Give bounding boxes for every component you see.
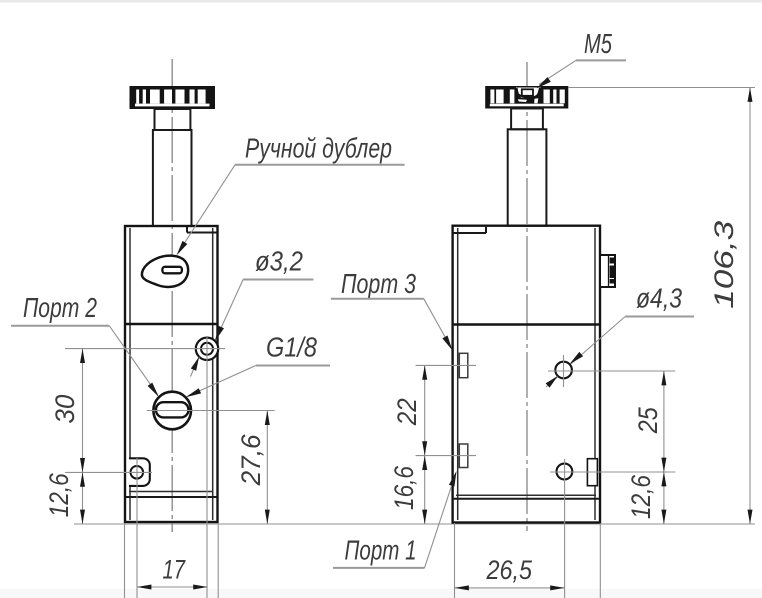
right knob neck [511,109,543,130]
svg-text:12,6: 12,6 [44,472,74,517]
left body mid divider [126,323,217,325]
dimension 26,5 [455,459,601,598]
lower hole circle [557,464,573,480]
svg-text:G1/8: G1/8 [266,332,317,363]
port 3 tab (upper left) [459,353,468,377]
label: M5 [537,28,627,89]
left knob neck [155,109,191,130]
port 2 G1/8 circle [153,392,191,430]
label: ø3,2 with diameter arrows [191,245,314,376]
svg-text:ø3,2: ø3,2 [255,245,303,276]
hole ø3.2 circle [196,338,218,360]
bottom-left boss with hole [129,458,150,486]
svg-text:26,5: 26,5 [486,555,533,585]
right knob (knurled head with M5 recess) [485,86,568,109]
lower-right boss rectangle [587,459,597,486]
right body top-left notch [453,227,486,233]
dimension 25 / 12,6 right [548,371,675,524]
svg-text:Ручной дублер: Ручной дублер [245,133,392,164]
hole ø4.3 circle upper [555,355,572,387]
right view centerline [526,62,528,531]
left body top-right notch [187,227,217,233]
svg-text:25: 25 [633,406,663,434]
label: G1/8 [186,332,330,398]
port 1 tab (lower left) [459,444,468,468]
left body bottom section lines [126,492,217,498]
label: Порт 1 [333,471,457,568]
dimension 30 / 12,6 left [44,349,755,524]
right body outline [453,226,600,523]
right side connector protrusion [600,255,615,287]
left knob (knurled head) [130,86,216,109]
svg-text:M5: M5 [584,28,612,59]
left body outline [125,226,218,522]
dimension 106,3 [568,88,755,525]
svg-text:30: 30 [50,395,80,424]
svg-text:ø4,3: ø4,3 [636,282,682,313]
svg-text:22: 22 [392,398,422,426]
svg-text:17: 17 [163,555,186,585]
right body mid divider [454,323,599,325]
svg-text:16,6: 16,6 [389,465,419,510]
svg-text:12,6: 12,6 [626,474,656,519]
manual override teardrop [142,256,188,287]
dimension 27,6 [147,411,275,525]
label: ø4,3 with diameter arrows [546,282,694,387]
svg-text:Порт 2: Порт 2 [23,292,97,323]
left view centerline [171,59,173,532]
dimension 17 [125,336,219,598]
svg-text:Порт 1: Порт 1 [345,535,417,566]
right stem [508,129,547,225]
svg-text:Порт 3: Порт 3 [341,268,416,299]
svg-text:106,3: 106,3 [709,221,739,309]
svg-text:27,6: 27,6 [236,433,266,486]
label: Порт 3 [331,268,453,351]
label: Порт 2 [11,292,159,397]
right body bottom section lines [454,495,599,499]
left stem [153,130,192,226]
dimension 22 / 16,6 [389,365,476,524]
label: Ручной дублер [177,133,405,256]
